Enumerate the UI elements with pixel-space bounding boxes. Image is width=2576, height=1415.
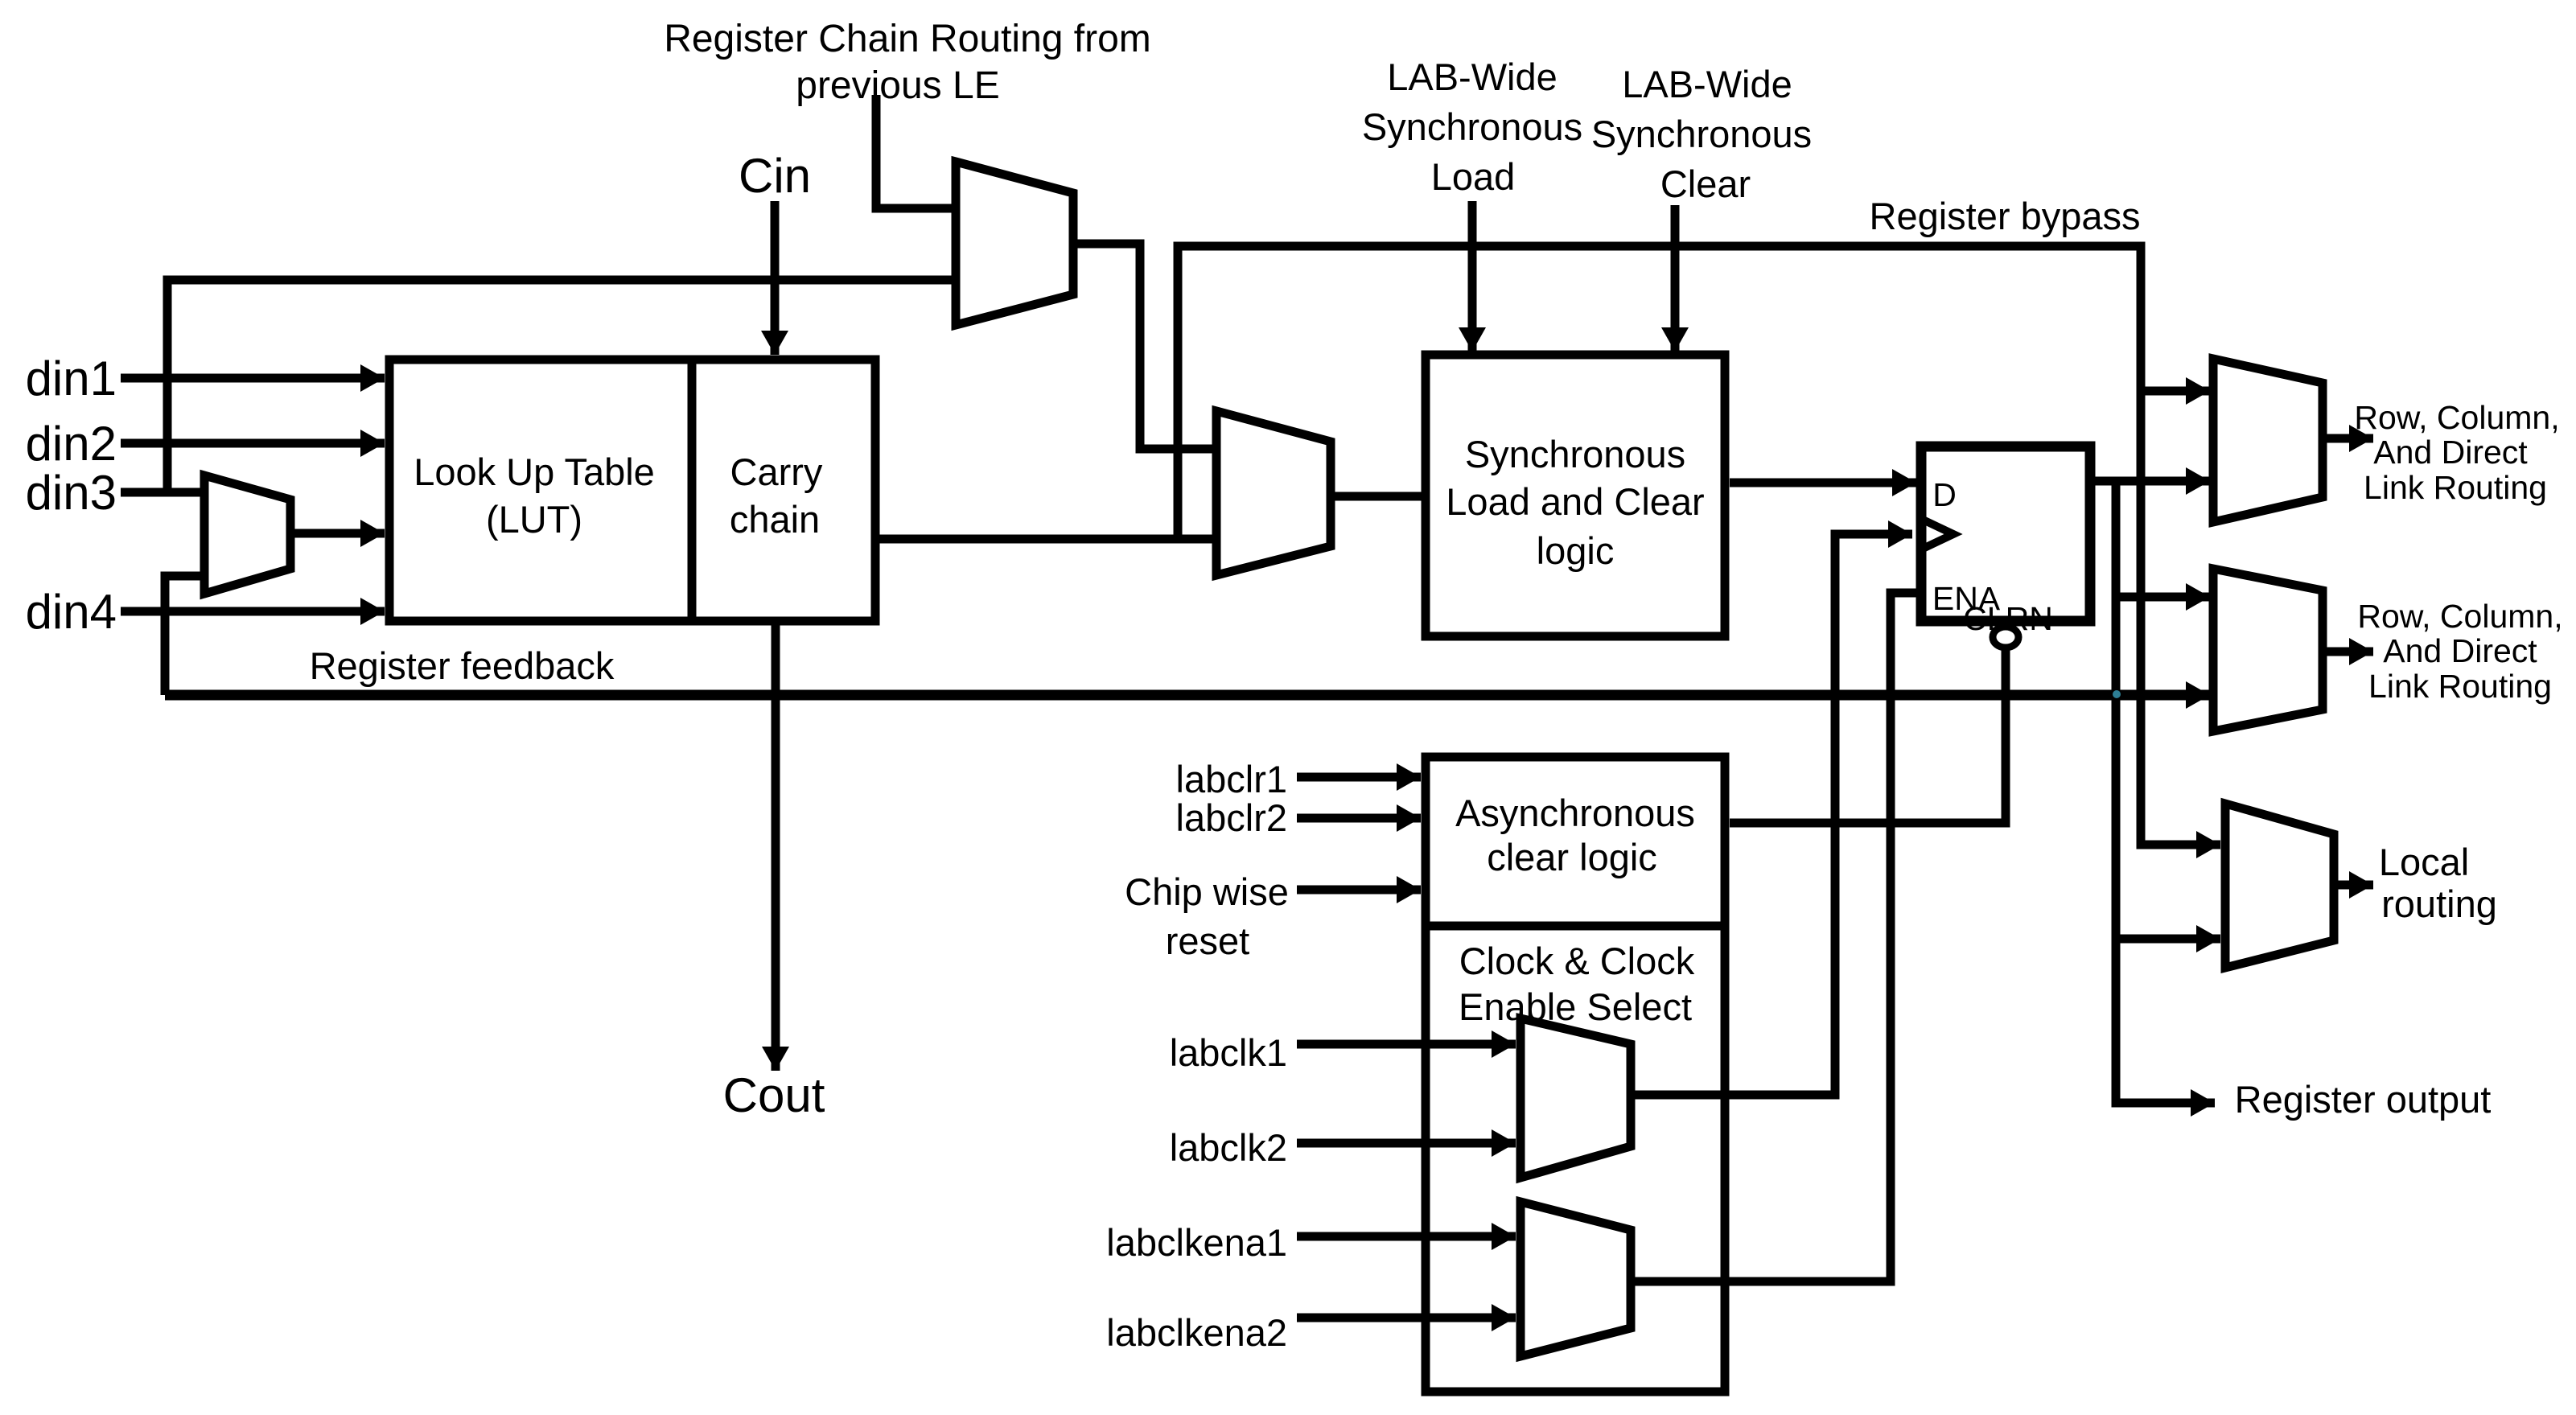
- svg-text:clear logic: clear logic: [1487, 836, 1657, 878]
- svg-text:Load: Load: [1431, 155, 1516, 198]
- mux M3 middle select: [1216, 411, 1331, 575]
- svg-text:labclr2: labclr2: [1176, 796, 1287, 839]
- svg-text:Register bypass: Register bypass: [1870, 195, 2141, 237]
- wire din3 branch up to top mux lower input: [167, 280, 956, 492]
- svg-text:Register Chain Routing from: Register Chain Routing from: [664, 18, 1151, 60]
- svg-text:chain: chain: [730, 498, 820, 541]
- wire chip wise reset: [1297, 886, 1421, 895]
- svg-text:Carry: Carry: [730, 450, 823, 493]
- svg-text:labclkena1: labclkena1: [1106, 1221, 1287, 1264]
- wire Q branch to local routing mux: [2116, 935, 2220, 944]
- svg-text:(LUT): (LUT): [486, 498, 582, 541]
- mux M5 output row column direct link 2: [2213, 569, 2323, 731]
- divider LUT / carry chain: [688, 360, 697, 621]
- wire register output arrow: [2116, 1094, 2215, 1103]
- wire din3 to mux M2: [121, 488, 204, 497]
- wire Cout arrow: [772, 621, 780, 1071]
- svg-text:Row, Column,: Row, Column,: [2357, 598, 2562, 635]
- wire bypass branch to output mux M4: [2141, 387, 2210, 396]
- mux M1 register chain select: [956, 162, 1073, 325]
- wire register feedback riser to mux M2: [165, 576, 204, 695]
- wire din1 to LUT: [121, 374, 385, 383]
- wire middle mux output to sync box: [1331, 492, 1426, 501]
- wire labclk2: [1297, 1139, 1516, 1148]
- wire local routing mux output arrow: [2334, 881, 2373, 890]
- wire labclkena2: [1297, 1314, 1516, 1322]
- wire DFF Q output to mux M4: [2090, 477, 2210, 486]
- svg-text:din1: din1: [26, 352, 117, 405]
- svg-text:Register output: Register output: [2235, 1078, 2492, 1121]
- svg-text:Link Routing: Link Routing: [2368, 668, 2552, 705]
- DFF clock wedge: [1921, 519, 1953, 549]
- svg-text:Cin: Cin: [739, 149, 811, 203]
- svg-text:Clock & Clock: Clock & Clock: [1459, 940, 1695, 982]
- svg-text:labclr1: labclr1: [1176, 758, 1287, 800]
- svg-text:din3: din3: [26, 466, 117, 520]
- svg-text:CLRN: CLRN: [1963, 600, 2053, 637]
- wire M2 output to LUT: [290, 529, 385, 538]
- svg-text:Row, Column,: Row, Column,: [2354, 399, 2559, 436]
- box Look Up Table + Carry chain: [389, 360, 875, 621]
- mux M7 clock select: [1520, 1018, 1631, 1178]
- svg-text:Link Routing: Link Routing: [2364, 469, 2547, 506]
- svg-text:Register feedback: Register feedback: [310, 644, 615, 687]
- svg-text:din4: din4: [26, 585, 117, 639]
- box Asynchronous clear logic + Clock & Clock Enable Select: [1426, 757, 1725, 1392]
- svg-text:labclk2: labclk2: [1170, 1126, 1287, 1169]
- DFF CLRN bubble: [1993, 627, 2018, 648]
- svg-text:Enable Select: Enable Select: [1459, 985, 1692, 1028]
- wire din4 to LUT: [121, 607, 385, 616]
- wire Q branch to mux M5: [2116, 593, 2210, 602]
- svg-text:D: D: [1932, 476, 1957, 513]
- svg-text:previous LE: previous LE: [796, 64, 999, 107]
- wire labclkena1: [1297, 1232, 1516, 1241]
- wire Cin arrow into carry chain: [771, 201, 780, 355]
- svg-text:Load and Clear: Load and Clear: [1446, 480, 1704, 523]
- svg-text:Synchronous: Synchronous: [1591, 113, 1812, 155]
- wire register feedback main: [165, 690, 2210, 701]
- svg-text:reset: reset: [1166, 919, 1250, 962]
- wire labclr1: [1297, 773, 1421, 782]
- svg-text:Cout: Cout: [723, 1068, 825, 1122]
- svg-text:Look Up Table: Look Up Table: [414, 450, 655, 493]
- svg-text:And Direct: And Direct: [2383, 632, 2537, 669]
- wire M4 output arrow: [2323, 434, 2373, 443]
- wire clock enable mux output to DFF ENA: [1631, 593, 1921, 1281]
- wire carry chain output to middle mux: [878, 535, 1216, 544]
- svg-text:Clear: Clear: [1660, 162, 1751, 205]
- svg-text:Chip wise: Chip wise: [1125, 870, 1289, 913]
- wire sync box output to DFF D input: [1730, 479, 1916, 487]
- wire register bypass: [1178, 246, 2220, 845]
- wire LAB-wide synchronous clear arrow: [1671, 205, 1680, 352]
- mux M4 output row column direct link 1: [2213, 359, 2323, 522]
- svg-text:labclkena2: labclkena2: [1106, 1311, 1287, 1354]
- box Synchronous Load and Clear logic: [1426, 355, 1725, 636]
- wire register chain routing vertical into top mux: [876, 95, 956, 208]
- mux M6 local routing: [2225, 804, 2334, 968]
- wire M5 output arrow: [2323, 648, 2373, 656]
- svg-text:labclk1: labclk1: [1170, 1031, 1287, 1074]
- svg-text:routing: routing: [2381, 882, 2497, 925]
- mux M2 din3/feedback select: [204, 475, 290, 594]
- svg-text:LAB-Wide: LAB-Wide: [1622, 63, 1792, 105]
- wire LAB-wide synchronous load arrow: [1468, 201, 1477, 352]
- svg-text:Synchronous: Synchronous: [1465, 433, 1685, 475]
- D flip-flop box: [1921, 446, 2090, 621]
- svg-text:Asynchronous: Asynchronous: [1455, 792, 1695, 834]
- wire din2 to LUT: [121, 439, 385, 448]
- wire labclr2: [1297, 814, 1421, 823]
- wire labclk1: [1297, 1040, 1516, 1049]
- svg-text:din2: din2: [26, 417, 117, 471]
- svg-text:LAB-Wide: LAB-Wide: [1387, 56, 1558, 98]
- wire clock mux output to DFF clock: [1631, 534, 1912, 1095]
- wire M1 output to middle mux: [1073, 244, 1216, 449]
- svg-text:Local: Local: [2379, 841, 2469, 883]
- divider async / clock section: [1426, 922, 1725, 931]
- svg-text:And Direct: And Direct: [2373, 434, 2528, 471]
- svg-text:logic: logic: [1537, 529, 1615, 572]
- wire asynchronous clear output to CLRN bubble: [1730, 650, 2006, 823]
- svg-text:Synchronous: Synchronous: [1362, 105, 1582, 148]
- mux M8 clock enable select: [1520, 1202, 1631, 1356]
- wire register output vertical: [2112, 481, 2121, 1103]
- junction dot feedback/register output: [2113, 690, 2121, 698]
